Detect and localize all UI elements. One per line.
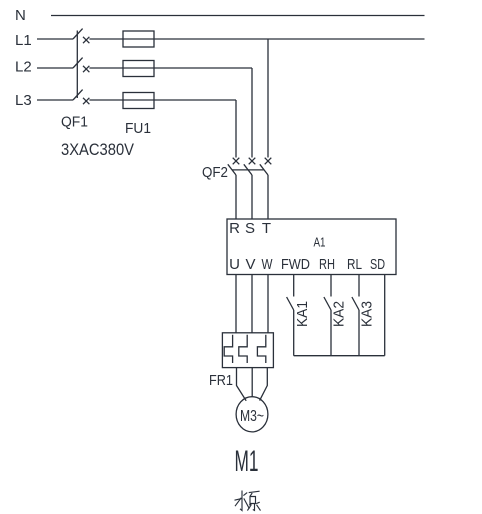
wire FR1 to motor right	[260, 368, 268, 401]
breaker QF1 linkage	[76, 31, 78, 99]
svg-text:FWD: FWD	[281, 256, 310, 273]
svg-text:QF1: QF1	[61, 114, 88, 131]
wire L2 drop to QF2	[251, 68, 253, 158]
wire KA3 to common bus	[358, 310, 360, 356]
fuse FU1 element 3	[123, 93, 154, 109]
breaker QF1 pole 1 blade	[73, 29, 83, 39]
thermal relay FR1 box	[222, 333, 273, 368]
wire FWD drop	[293, 275, 295, 297]
breaker QF2 pole 1 blade	[228, 164, 236, 175]
wire L3 rail	[89, 99, 236, 101]
svg-text:FR1: FR1	[209, 372, 233, 389]
svg-text:W: W	[262, 256, 274, 273]
wire QF2 pole 1 to A1 R	[235, 175, 237, 219]
label shui (water) character	[235, 491, 250, 511]
svg-text:3XAC380V: 3XAC380V	[61, 141, 134, 159]
wire QF2 pole 3 to A1 T	[267, 175, 269, 219]
svg-text:SD: SD	[370, 256, 385, 273]
wire KA1 to common bus	[293, 310, 295, 356]
contact KA1 blade	[287, 297, 294, 310]
svg-text:V: V	[245, 256, 255, 273]
motor M1 circle	[236, 397, 268, 432]
wire SD drop	[384, 275, 386, 356]
svg-text:QF2: QF2	[202, 164, 228, 181]
svg-text:KA1: KA1	[294, 301, 311, 327]
breaker QF2 pole 3 contact X	[265, 158, 272, 165]
breaker QF1 pole 2 blade	[73, 58, 83, 68]
contact KA2 blade	[324, 297, 331, 310]
wire FR1 to motor middle	[251, 368, 253, 397]
svg-text:RH: RH	[319, 256, 335, 273]
wire RL drop	[358, 275, 360, 297]
fuse FU1 element 1	[123, 31, 154, 47]
breaker QF1 pole 3 contact X	[83, 98, 89, 104]
wire L1 rail	[89, 38, 424, 40]
label beng (pump) character	[247, 491, 260, 510]
wire RH drop	[330, 275, 332, 297]
breaker QF2 pole 3 blade	[260, 164, 268, 175]
svg-text:S: S	[245, 220, 255, 237]
svg-text:N: N	[15, 7, 26, 24]
breaker QF2 pole 2 blade	[244, 164, 252, 175]
inverter A1 box	[227, 219, 396, 275]
wire N rail	[51, 15, 425, 17]
wire L2 stub	[37, 67, 73, 69]
wire L1 stub	[37, 38, 73, 40]
wire FR1 to motor left	[237, 368, 247, 401]
thermal relay FR1 element 2	[239, 335, 247, 363]
svg-text:U: U	[229, 256, 240, 273]
wire L3 stub	[37, 99, 73, 101]
svg-text:L2: L2	[15, 59, 32, 76]
wire L2 rail	[89, 67, 252, 69]
breaker QF1 pole 2 contact X	[83, 66, 89, 72]
wire L1 drop to QF2	[267, 39, 269, 158]
thermal relay FR1 element 3	[257, 335, 265, 363]
svg-text:T: T	[262, 220, 271, 237]
svg-text:KA2: KA2	[330, 301, 347, 327]
thermal relay FR1 element 1	[224, 335, 232, 363]
breaker QF1 pole 3 blade	[73, 90, 83, 100]
breaker QF2 pole 2 contact X	[249, 158, 256, 165]
wire common bus	[294, 355, 385, 357]
wire V to FR1	[251, 275, 253, 333]
svg-text:M3~: M3~	[240, 408, 264, 425]
breaker QF2 linkage	[232, 169, 264, 171]
svg-text:A1: A1	[314, 235, 326, 250]
svg-text:M1: M1	[235, 445, 259, 478]
svg-text:L3: L3	[15, 92, 32, 109]
svg-text:RL: RL	[347, 256, 362, 273]
wire U to FR1	[235, 275, 237, 333]
wire W to FR1	[267, 275, 269, 333]
svg-text:R: R	[229, 220, 240, 237]
svg-text:FU1: FU1	[125, 120, 151, 137]
wire L3 drop to QF2	[235, 100, 237, 158]
breaker QF2 pole 1 contact X	[233, 158, 240, 165]
breaker QF1 pole 1 contact X	[83, 37, 89, 43]
svg-text:L1: L1	[15, 32, 32, 49]
wire QF2 pole 2 to A1 S	[251, 175, 253, 219]
contact KA3 blade	[352, 297, 359, 310]
svg-text:KA3: KA3	[359, 301, 376, 327]
wire KA2 to common bus	[330, 310, 332, 356]
fuse FU1 element 2	[123, 61, 154, 77]
